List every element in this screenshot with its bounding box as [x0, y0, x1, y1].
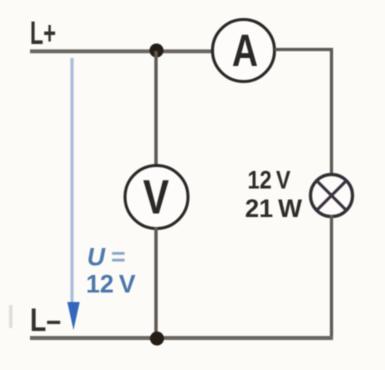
svg-text:L+: L+: [30, 15, 56, 51]
lamp 12V 21W: [311, 175, 353, 217]
svg-text:L–: L–: [30, 302, 61, 338]
svg-text:12 V: 12 V: [86, 271, 136, 299]
svg-text:A: A: [232, 25, 258, 76]
svg-text:=: =: [111, 244, 126, 272]
svg-text:V: V: [143, 172, 169, 225]
voltage arrow U (head): [67, 302, 79, 330]
label: lamp rating 12V 21W: [245, 167, 302, 224]
wire: bottom rail L-: [30, 336, 333, 340]
wire: lamp down to bottom rail: [330, 215, 333, 338]
voltage arrow U (line): [70, 58, 73, 304]
wire: voltmeter down to bottom junction: [154, 227, 157, 338]
ammeter A: [213, 20, 275, 82]
svg-text:12 V: 12 V: [248, 167, 291, 195]
label: U =: [87, 244, 126, 272]
svg-text:U: U: [87, 244, 106, 272]
wire: top rail from L+ to ammeter: [30, 49, 214, 53]
wire: ammeter to top-right corner and down to lamp: [275, 50, 332, 177]
node: bottom junction (rail / voltmeter branch): [150, 332, 164, 346]
wire: top junction down to voltmeter: [154, 51, 157, 167]
node: top junction (rail / voltmeter branch): [150, 44, 164, 58]
svg-text:21 W: 21 W: [245, 195, 302, 223]
scan artifact: faint page-edge smudge: [9, 305, 13, 328]
voltmeter V: [125, 166, 188, 229]
